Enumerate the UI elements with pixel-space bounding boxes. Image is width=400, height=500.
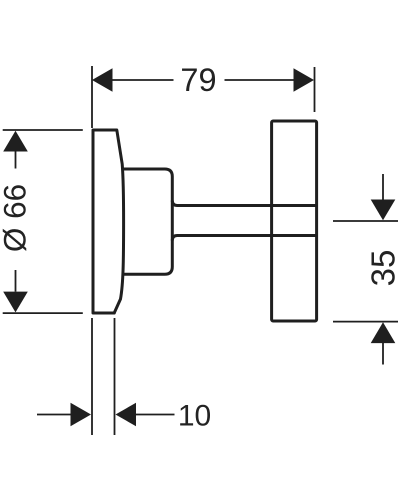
dim 10 right arrow	[116, 403, 137, 426]
stem bottom line	[172, 236, 316, 241]
handle hub	[123, 169, 173, 274]
dim 10 right extension line	[114, 318, 116, 435]
dim O66 down arrow tail	[15, 270, 17, 292]
dim 35 bottom line	[333, 321, 398, 323]
dim 35 up arrow	[371, 322, 396, 343]
svg-text:Ø 66: Ø 66	[0, 184, 33, 252]
dim 79 left extension line	[91, 66, 93, 128]
dim 35 down arrow tail	[382, 174, 384, 201]
dim O66 up arrow tail	[15, 152, 17, 169]
svg-text:79: 79	[180, 62, 216, 98]
dim 35 up arrow tail	[382, 343, 384, 365]
stem top line	[172, 201, 316, 206]
dim 10 left arrow	[71, 403, 92, 426]
dim O66 up arrow	[3, 131, 28, 152]
dim 79 left arrow	[92, 68, 113, 91]
dim 79 right tail	[225, 79, 295, 81]
dim 10 left tail	[37, 414, 72, 416]
dim 10 left extension line	[91, 318, 93, 435]
svg-text:35: 35	[365, 250, 400, 287]
dim 35 top line	[333, 220, 398, 222]
escutcheon conical face edge	[114, 130, 123, 313]
escutcheon plate left/top/bottom edges	[93, 130, 117, 313]
dim O66 bottom line	[3, 312, 83, 314]
dim O66 down arrow	[3, 292, 28, 313]
dim O66 top line	[3, 129, 83, 131]
dim 10 right tail	[136, 414, 175, 416]
dim 79 right arrow	[294, 68, 315, 91]
dim 79 right extension line	[314, 67, 316, 112]
dim 79 left tail	[112, 79, 174, 81]
dim 35 down arrow	[371, 200, 396, 221]
cross handle bar	[272, 121, 317, 321]
svg-text:10: 10	[178, 400, 211, 433]
